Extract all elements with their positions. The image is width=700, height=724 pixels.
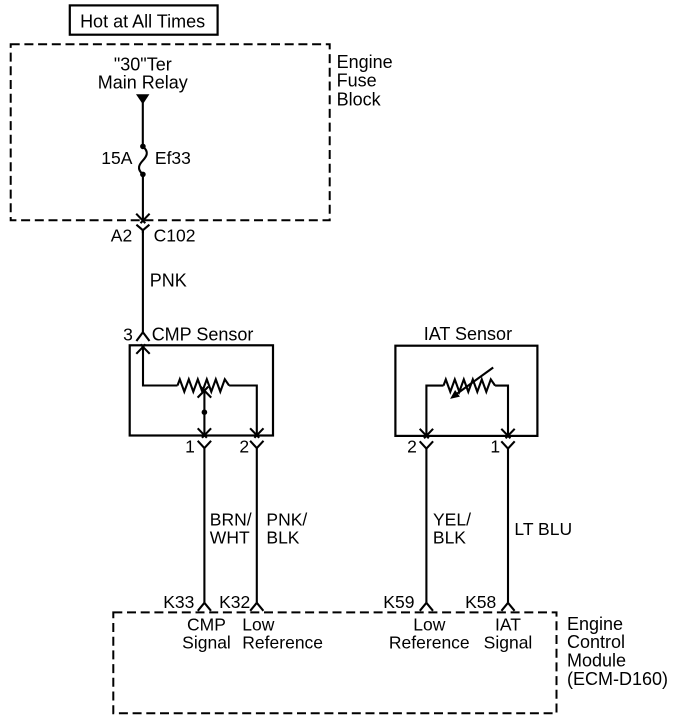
CMP bottom arrow pin 2 (down) — [250, 428, 263, 438]
CMP internal up arrow at pin 3 — [136, 344, 149, 354]
CMP internal wire: pin3 down and right to resistor — [143, 348, 178, 386]
svg-text:2: 2 — [407, 437, 417, 457]
pin 1 female Y — [198, 441, 211, 448]
svg-text:Engine: Engine — [567, 614, 623, 634]
CMP wiper arrow (up, at resistor center) — [198, 387, 212, 398]
svg-text:Low: Low — [242, 614, 274, 634]
wire: fuse to C102 — [142, 174, 144, 220]
K58 pin connector (inverted Y) — [501, 603, 514, 611]
CMP resistor — [178, 379, 230, 391]
connector C102 male arrow (down) — [136, 214, 149, 224]
svg-text:WHT: WHT — [210, 528, 250, 548]
K33 pin connector (inverted Y) — [198, 603, 211, 611]
svg-text:(ECM-D160): (ECM-D160) — [567, 669, 668, 689]
wire YEL/BLK: IAT pin2 to K59 — [425, 449, 427, 603]
junction dot — [202, 409, 208, 415]
svg-text:IAT Sensor: IAT Sensor — [424, 324, 512, 344]
IAT left wire — [426, 386, 443, 436]
label box: Hot at All Times — [70, 5, 218, 34]
svg-text:1: 1 — [185, 437, 195, 457]
CMP center tap wire — [203, 392, 205, 436]
CMP right branch wire — [229, 386, 257, 436]
wire PNK/BLK: CMP pin2 to K32 — [256, 448, 258, 603]
svg-text:C102: C102 — [154, 225, 196, 245]
svg-text:Signal: Signal — [182, 633, 231, 653]
svg-text:BLK: BLK — [266, 528, 299, 548]
relay output terminal triangle — [136, 94, 149, 103]
IAT bottom arrow pin 1 (down) — [501, 429, 514, 439]
IAT thermistor resistor — [444, 379, 496, 391]
svg-text:Reference: Reference — [389, 633, 470, 653]
svg-text:Hot at All Times: Hot at All Times — [80, 12, 205, 32]
svg-text:1: 1 — [490, 437, 500, 457]
svg-text:Ef33: Ef33 — [155, 148, 191, 168]
svg-text:K59: K59 — [383, 592, 414, 612]
fuse Ef33 — [140, 144, 146, 150]
svg-text:LT BLU: LT BLU — [514, 519, 572, 539]
svg-text:Module: Module — [567, 651, 626, 671]
IAT thermistor diagonal arrow — [455, 368, 494, 396]
ECM dashed box — [113, 612, 556, 713]
IAT sensor box — [395, 346, 537, 436]
svg-text:Control: Control — [567, 632, 625, 652]
pin 2 female Y — [250, 441, 263, 448]
IAT pin 2 female Y — [420, 441, 433, 448]
CMP bottom arrow pin 1 (down) — [198, 428, 211, 438]
svg-text:PNK: PNK — [150, 271, 187, 291]
svg-text:Block: Block — [337, 89, 382, 109]
CMP sensor box — [130, 345, 273, 435]
engine fuse block dashed box — [11, 44, 330, 220]
IAT pin 1 female Y — [501, 441, 514, 448]
connector C102 female Y — [136, 225, 149, 233]
svg-text:CMP: CMP — [187, 614, 226, 634]
IAT bottom arrow pin 2 (down) — [420, 429, 433, 439]
svg-text:K32: K32 — [219, 592, 250, 612]
K59 pin connector (inverted Y) — [420, 603, 433, 611]
svg-text:BLK: BLK — [433, 528, 466, 548]
svg-text:Main Relay: Main Relay — [98, 73, 188, 93]
wire: relay to fuse — [142, 102, 144, 146]
svg-text:K58: K58 — [465, 592, 496, 612]
svg-text:Fuse: Fuse — [337, 71, 377, 91]
svg-text:Engine: Engine — [337, 52, 393, 72]
svg-text:K33: K33 — [163, 592, 194, 612]
svg-text:Reference: Reference — [242, 633, 323, 653]
wire BRN/WHT: CMP pin1 to K33 — [203, 448, 205, 603]
wire LT BLU: IAT pin1 to K58 — [507, 449, 509, 603]
IAT right wire — [495, 386, 508, 436]
pin 3 connector (inverted Y) — [136, 332, 149, 341]
svg-text:15A: 15A — [101, 148, 132, 168]
wire PNK: C102 to CMP pin 3 — [142, 230, 144, 332]
svg-text:IAT: IAT — [495, 614, 521, 634]
svg-text:2: 2 — [239, 437, 249, 457]
svg-text:CMP Sensor: CMP Sensor — [152, 324, 254, 344]
svg-text:Low: Low — [413, 614, 445, 634]
svg-text:"30"Ter: "30"Ter — [114, 55, 172, 75]
svg-text:Signal: Signal — [484, 633, 533, 653]
svg-text:A2: A2 — [111, 225, 132, 245]
svg-text:3: 3 — [123, 325, 133, 345]
K32 pin connector (inverted Y) — [250, 603, 263, 611]
